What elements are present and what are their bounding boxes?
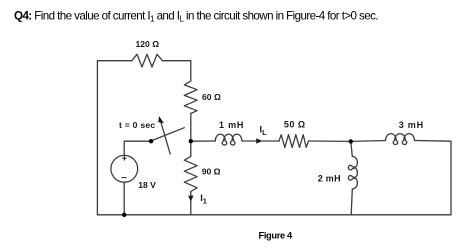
svg-text:t = 0 sec: t = 0 sec	[119, 120, 155, 130]
svg-text:120 Ω: 120 Ω	[136, 39, 160, 49]
svg-text:1 mH: 1 mH	[219, 120, 244, 130]
svg-text:3 mH: 3 mH	[399, 120, 424, 130]
svg-text:Figure 4: Figure 4	[259, 230, 294, 240]
svg-text:Q4: Find the value of current: Q4: Find the value of current I1 and IL …	[14, 9, 378, 23]
svg-text:60 Ω: 60 Ω	[202, 92, 221, 102]
svg-text:2 mH: 2 mH	[318, 174, 341, 184]
svg-text:50 Ω: 50 Ω	[284, 120, 306, 130]
svg-text:90 Ω: 90 Ω	[202, 167, 221, 177]
svg-text:18 V: 18 V	[138, 180, 156, 190]
